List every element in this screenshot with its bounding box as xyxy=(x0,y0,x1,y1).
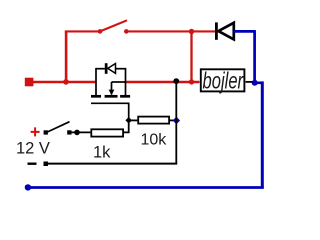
svg-text:10k: 10k xyxy=(141,131,168,148)
svg-text:bojler: bojler xyxy=(203,69,245,94)
svg-text:12 V: 12 V xyxy=(16,140,50,158)
svg-text:1k: 1k xyxy=(93,144,111,162)
